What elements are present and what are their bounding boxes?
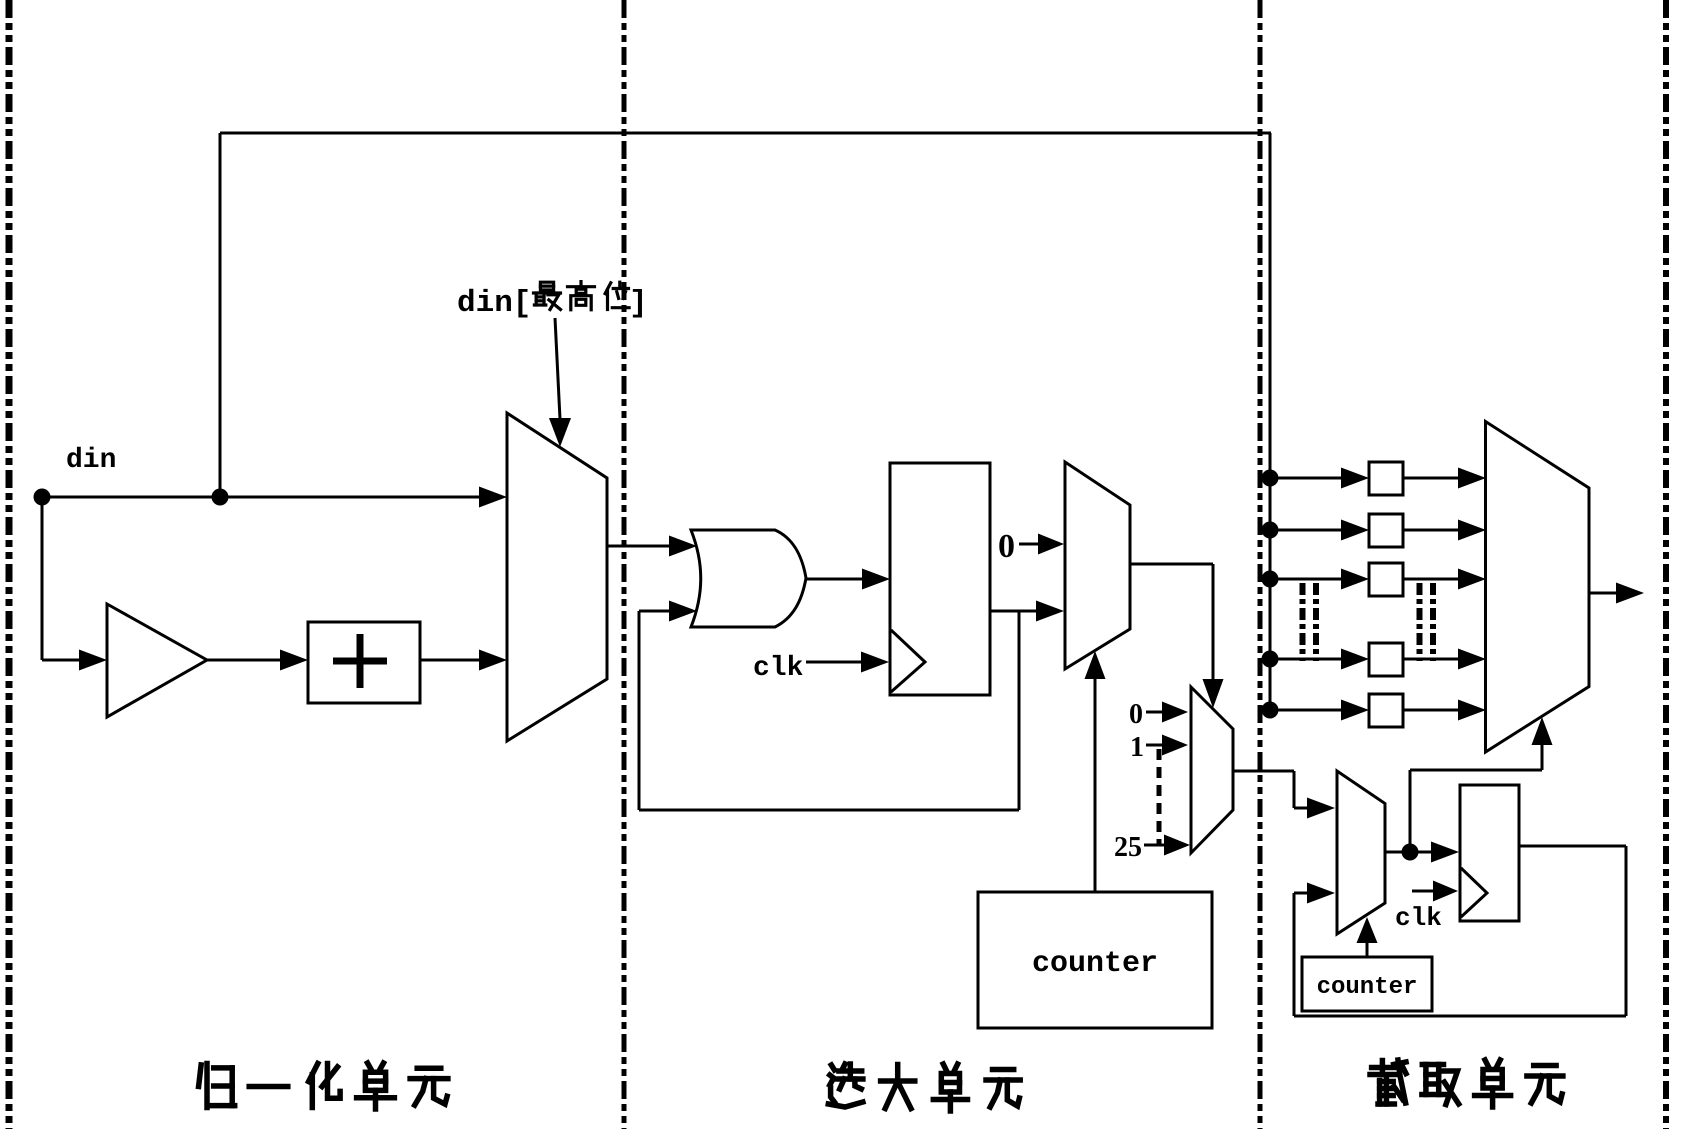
svg-text:]: ] (629, 286, 648, 321)
svg-text:clk: clk (753, 653, 804, 684)
svg-text:clk: clk (1395, 903, 1442, 933)
svg-text:0: 0 (998, 528, 1015, 565)
svg-text:din: din (66, 445, 116, 476)
svg-text:0: 0 (1129, 699, 1143, 730)
svg-text:1: 1 (1130, 732, 1144, 763)
svg-text:counter: counter (1317, 974, 1418, 1001)
svg-text:25: 25 (1114, 832, 1142, 863)
svg-text:counter: counter (1032, 947, 1158, 981)
svg-text:din[: din[ (457, 286, 531, 321)
